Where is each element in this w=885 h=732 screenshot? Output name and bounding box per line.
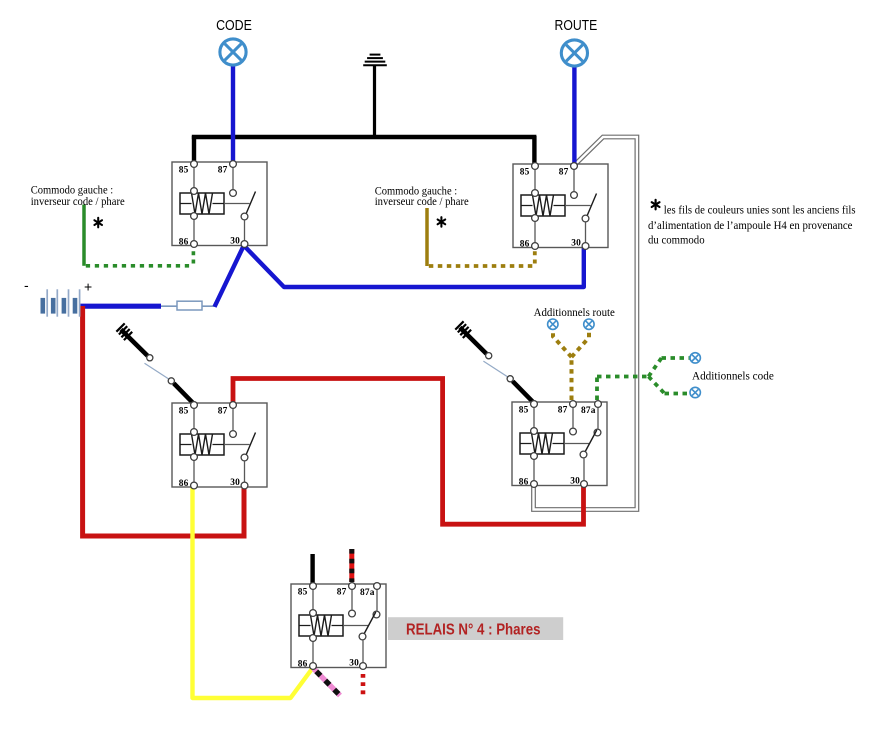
lamp ROUTE (circle with X): [561, 40, 587, 66]
svg-text:87: 87: [218, 166, 228, 176]
svg-text:85: 85: [298, 588, 308, 598]
relay K5 (relais phares) pin 87: [349, 583, 356, 590]
switch S1 (left) terminal circle 1: [147, 355, 153, 361]
svg-text:87: 87: [559, 168, 569, 178]
relay K2 (top right) coil (rect + zigzag): [521, 195, 565, 216]
svg-text:30: 30: [570, 477, 580, 487]
svg-text:RELAIS N° 4 : Phares: RELAIS N° 4 : Phares: [406, 622, 541, 639]
relay K2 (top right) pin 30: [582, 243, 589, 250]
relay K5 (relais phares) contact 87a lead: [376, 584, 378, 611]
wire: black bus (relay K1 85 / ground / relay K2 85): [192, 135, 537, 140]
relay K2 (top right) pin 86: [532, 243, 539, 250]
svg-text:86: 86: [298, 659, 308, 669]
relay K5 (relais phares) pin 85: [310, 583, 317, 590]
relay K4 (bottom right) pin 87: [570, 401, 577, 408]
relay K4 (bottom right) pin 85: [531, 401, 538, 408]
svg-text:86: 86: [519, 477, 529, 487]
relay K4 (bottom right) contact 87 lead: [572, 402, 574, 428]
switch S1 (left) open lever (thin): [145, 363, 171, 380]
svg-text:du commodo: du commodo: [648, 235, 705, 247]
relay K1 (top left) common 30 lead + blade: [244, 221, 246, 246]
svg-text:Additionnels code: Additionnels code: [692, 370, 774, 382]
relay K3 (bottom left) pin 85: [191, 402, 198, 409]
wire: red relay K3 pin 87 to relay K4 pin 30: [233, 379, 584, 525]
svg-text:86: 86: [179, 237, 189, 247]
relay K5 (relais phares) contact 87 lead: [351, 584, 353, 610]
svg-text:les fils de couleurs unies son: les fils de couleurs unies sont les anci…: [664, 204, 856, 216]
svg-text:86: 86: [179, 479, 189, 489]
switch S2 (right) moving blade to relay pin 85: [513, 381, 533, 401]
switch S2 (right) terminal circle 1: [486, 353, 492, 359]
relay K5 (relais phares) coil branch wire 85-86: [312, 584, 314, 668]
relay K4 (bottom right) coil branch wire 85-86: [533, 402, 535, 486]
relay K5 (relais phares) pin 86: [310, 663, 317, 670]
lamp additionnel route 1 (small, circle with X): [548, 319, 558, 329]
wire: blue fuse to relay K1 pin 30, on to relay K2 pin 30: [215, 246, 584, 307]
battery (cells): [43, 289, 80, 316]
svg-text:Commodo gauche :: Commodo gauche :: [31, 185, 114, 197]
relay K4 (bottom right) pin 87a: [595, 401, 602, 408]
relay K2 (top right) contact 87 lead: [573, 164, 575, 191]
lamp additionnel code 2 (small, circle with X): [690, 387, 700, 397]
relay K5 (relais phares) pin 87a: [374, 583, 381, 590]
svg-text:+: +: [84, 279, 92, 295]
relay K4 (bottom right) coil (rect + zigzag): [520, 433, 564, 454]
wire: green dashed to relay K1 pin 86: [86, 264, 194, 268]
wire: blue ROUTE lamp to relay K2 pin 87: [572, 67, 576, 166]
ground symbol (top center): [363, 55, 387, 66]
white wire (outlined): relay K2 pin87 -> right side -> relay K4 pin 86: [534, 137, 637, 510]
switch S1 (left) terminal circle 2: [168, 378, 174, 384]
wire: green dashed fork to Additionnels code lamps (relay K4 pin 87a): [597, 377, 649, 401]
note (right): legend about plain colour wires: [652, 200, 660, 210]
wire: blue battery + feed: [81, 304, 162, 309]
wire: blue CODE lamp to relay K1 pin 87: [231, 66, 235, 164]
wire: ground riser: [373, 66, 376, 139]
relay K1 (top left) pin 86: [191, 241, 198, 248]
wire stub: pink/black from relay K5 pin 86: [314, 669, 341, 696]
svg-text:30: 30: [230, 478, 240, 488]
asterisk (middle): [438, 217, 446, 227]
relay K4 (bottom right) pin 30: [581, 481, 588, 488]
RELAIS N 4 label bar: [388, 617, 563, 640]
relay K2 (top right) pin 87: [571, 163, 578, 170]
wire: red battery + to relay K3 pin 30: [83, 306, 244, 536]
relay K5 (relais phares) coil (rect + zigzag): [299, 615, 343, 636]
svg-text:inverseur code / phare: inverseur code / phare: [375, 196, 469, 208]
relay K5 (relais phares) pin 30: [360, 663, 367, 670]
relay K3 (bottom left) pin 87: [230, 402, 237, 409]
relay K3 (bottom left) box: [172, 403, 267, 487]
wire: green solid (commodo gauche, code): [82, 205, 86, 266]
wire: yellow relay K3 pin 86 to relay K5 pin 86: [193, 486, 314, 698]
svg-text:85: 85: [179, 407, 189, 417]
svg-text:d’alimentation de l’ampoule H4: d’alimentation de l’ampoule H4 en proven…: [648, 220, 853, 232]
svg-text:inverseur code / phare: inverseur code / phare: [31, 196, 125, 208]
wire: black drop to relay K1 pin 85: [192, 136, 196, 163]
svg-text:87: 87: [337, 588, 347, 598]
wire: thin lead to fuse: [161, 305, 215, 307]
svg-text:ROUTE: ROUTE: [555, 17, 598, 34]
relay K1 (top left) coil branch wire 85-86: [193, 162, 195, 246]
svg-text:85: 85: [519, 406, 529, 416]
relay K3 (bottom left) pin 86: [191, 482, 198, 489]
relay K5 (relais phares) common 30 lead + blade: [362, 641, 364, 668]
relay K3 (bottom left) common 30 lead + blade: [244, 462, 246, 488]
relay K3 (bottom left) contact 87 lead: [232, 403, 234, 430]
svg-text:CODE: CODE: [216, 17, 252, 34]
relay K1 (top left) contact 87 lead: [232, 162, 234, 189]
relay K1 (top left) pin 87: [230, 161, 237, 168]
relay K4 (bottom right) common 30 lead + blade: [583, 459, 585, 486]
lamp additionnel code 1 (small, circle with X): [690, 353, 700, 363]
switch S2 (right) open lever (thin): [483, 361, 509, 378]
relay K5 (relais phares) box: [291, 584, 386, 668]
relay K3 (bottom left) pin 30: [241, 482, 248, 489]
wire: dark-yellow solid (commodo gauche, phare): [425, 208, 429, 266]
switch S1 (left) hatch (chassis): [116, 323, 132, 340]
lamp CODE (circle with X): [220, 39, 246, 65]
wire stub: red/black above relay K5 pin 87: [349, 549, 354, 582]
svg-text:85: 85: [179, 166, 189, 176]
svg-text:Additionnels route: Additionnels route: [534, 307, 615, 319]
fuse F1: [177, 301, 202, 310]
switch S2 (right) terminal circle 2: [507, 376, 513, 382]
wire stub: black above relay K5 pin 85: [310, 554, 314, 584]
switch S1 (left) moving blade to relay pin 85: [174, 383, 194, 403]
switch S2 (right) fixed blade: [460, 327, 487, 353]
relay K1 (top left) coil (rect + zigzag): [180, 193, 224, 214]
svg-text:87: 87: [558, 406, 568, 416]
wire stub: red dotted below relay K5 pin 30: [361, 674, 366, 698]
relay K4 (bottom right) contact 87a lead: [597, 402, 599, 429]
relay K4 (bottom right) pin 86: [531, 481, 538, 488]
relay K2 (top right) common 30 lead + blade: [585, 223, 587, 248]
relay K4 (bottom right) box: [512, 402, 607, 486]
switch S2 (right) hatch (chassis): [455, 321, 471, 338]
relay K1 (top left) pin 30: [241, 241, 248, 248]
switch S1 (left) fixed blade: [121, 330, 148, 356]
relay K2 (top right) box: [513, 164, 608, 248]
wire: black drop to relay K2 pin 85: [532, 136, 536, 165]
svg-text:85: 85: [520, 168, 530, 178]
svg-text:87a: 87a: [360, 588, 375, 598]
svg-text:30: 30: [349, 659, 359, 669]
svg-text:30: 30: [571, 239, 581, 249]
relay K1 (top left) box: [172, 162, 267, 246]
relay K2 (top right) pin 85: [532, 163, 539, 170]
relay K3 (bottom left) coil branch wire 85-86: [193, 403, 195, 487]
svg-text:87a: 87a: [581, 406, 596, 416]
svg-text:87: 87: [218, 407, 228, 417]
svg-text:-: -: [24, 277, 29, 293]
wire: dark-yellow dashed Y to Additionnels route lamps (relay K4 pin 87): [570, 357, 574, 400]
relay K3 (bottom left) coil (rect + zigzag): [180, 434, 224, 455]
svg-text:30: 30: [230, 237, 240, 247]
svg-text:86: 86: [520, 239, 530, 249]
wire: dark-yellow dashed to relay K2 pin 86: [429, 264, 535, 268]
asterisk (left): [94, 218, 102, 228]
relay K2 (top right) coil branch wire 85-86: [534, 164, 536, 248]
relay K1 (top left) pin 85: [191, 161, 198, 168]
lamp additionnel route 2 (small, circle with X): [584, 319, 594, 329]
